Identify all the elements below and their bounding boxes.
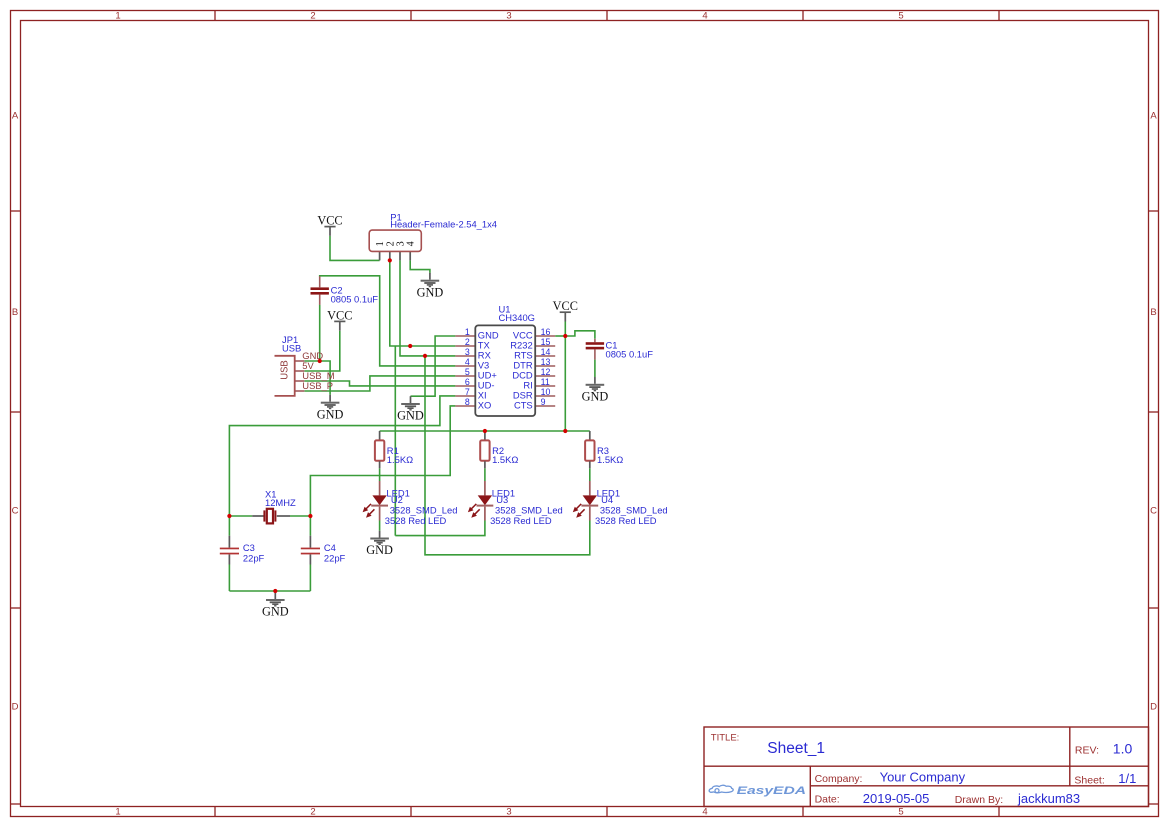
svg-text:1: 1	[465, 327, 470, 337]
svg-text:VCC: VCC	[327, 308, 352, 322]
svg-text:VCC: VCC	[553, 299, 578, 313]
svg-text:D: D	[12, 701, 19, 712]
svg-text:4: 4	[406, 241, 417, 246]
svg-text:3: 3	[465, 347, 470, 357]
svg-text:Date:: Date:	[815, 793, 840, 805]
svg-text:3: 3	[506, 807, 511, 818]
svg-text:22pF: 22pF	[324, 553, 346, 564]
svg-text:USB: USB	[280, 360, 291, 380]
svg-text:4: 4	[702, 11, 707, 22]
svg-text:1: 1	[115, 11, 120, 22]
svg-text:TITLE:: TITLE:	[711, 732, 740, 743]
svg-text:2: 2	[310, 11, 315, 22]
svg-text:3528 Red LED: 3528 Red LED	[385, 515, 447, 526]
svg-text:5: 5	[898, 11, 903, 22]
svg-text:A: A	[12, 110, 19, 121]
svg-text:1.0: 1.0	[1113, 740, 1133, 756]
svg-text:1/1: 1/1	[1118, 771, 1136, 786]
svg-text:B: B	[12, 307, 18, 318]
svg-text:8: 8	[465, 397, 470, 407]
svg-text:3528 Red LED: 3528 Red LED	[490, 515, 552, 526]
svg-text:3528_SMD_Led: 3528_SMD_Led	[390, 504, 458, 515]
svg-text:CH340G: CH340G	[499, 312, 535, 323]
svg-text:5: 5	[465, 367, 470, 377]
svg-text:A: A	[1150, 110, 1157, 121]
svg-text:4: 4	[465, 357, 470, 367]
svg-text:22pF: 22pF	[243, 553, 265, 564]
svg-text:2: 2	[465, 337, 470, 347]
svg-text:U2: U2	[391, 494, 403, 505]
svg-text:3: 3	[506, 11, 511, 22]
svg-text:Drawn By:: Drawn By:	[955, 794, 1003, 806]
svg-text:USB_P: USB_P	[302, 380, 333, 391]
svg-text:Company:: Company:	[815, 773, 863, 785]
svg-text:REV:: REV:	[1075, 744, 1099, 756]
svg-text:Your Company: Your Company	[880, 770, 966, 785]
svg-text:6: 6	[465, 377, 470, 387]
svg-text:0805 0.1uF: 0805 0.1uF	[331, 294, 379, 305]
svg-text:USB: USB	[282, 343, 301, 354]
svg-text:CTS: CTS	[514, 400, 533, 411]
svg-text:GND: GND	[317, 407, 344, 421]
svg-text:9: 9	[541, 397, 546, 407]
svg-text:15: 15	[541, 337, 551, 347]
svg-text:14: 14	[541, 347, 551, 357]
svg-text:13: 13	[541, 357, 551, 367]
svg-text:GND: GND	[397, 409, 424, 423]
svg-text:5: 5	[898, 807, 903, 818]
svg-text:10: 10	[541, 387, 551, 397]
svg-text:7: 7	[465, 387, 470, 397]
svg-text:3528 Red LED: 3528 Red LED	[595, 515, 657, 526]
svg-text:XO: XO	[478, 400, 492, 411]
svg-text:C: C	[1150, 505, 1157, 516]
svg-text:1.5KΩ: 1.5KΩ	[492, 454, 518, 465]
svg-text:GND: GND	[262, 605, 289, 619]
svg-text:16: 16	[541, 327, 551, 337]
svg-text:11: 11	[541, 377, 550, 387]
svg-text:GND: GND	[366, 543, 393, 557]
svg-text:U3: U3	[496, 494, 508, 505]
svg-text:B: B	[1150, 307, 1156, 318]
svg-text:C4: C4	[324, 542, 336, 553]
svg-text:12MHZ: 12MHZ	[265, 497, 296, 508]
svg-text:C: C	[12, 505, 19, 516]
svg-text:GND: GND	[417, 285, 444, 299]
svg-text:2: 2	[310, 807, 315, 818]
svg-text:Header-Female-2.54_1x4: Header-Female-2.54_1x4	[390, 218, 497, 229]
svg-text:Sheet_1: Sheet_1	[767, 740, 825, 757]
svg-text:1: 1	[115, 807, 120, 818]
svg-text:GND: GND	[582, 389, 609, 403]
svg-text:1.5KΩ: 1.5KΩ	[387, 454, 413, 465]
svg-text:0805 0.1uF: 0805 0.1uF	[606, 348, 654, 359]
svg-text:12: 12	[541, 367, 551, 377]
svg-text:C3: C3	[243, 542, 255, 553]
svg-text:VCC: VCC	[317, 214, 342, 228]
svg-text:Sheet:: Sheet:	[1074, 775, 1104, 787]
svg-text:jackkum83: jackkum83	[1017, 791, 1080, 806]
svg-text:EasyEDA: EasyEDA	[737, 785, 807, 797]
svg-text:U4: U4	[601, 494, 613, 505]
svg-text:4: 4	[702, 807, 707, 818]
svg-text:3528_SMD_Led: 3528_SMD_Led	[600, 504, 668, 515]
svg-text:1.5KΩ: 1.5KΩ	[597, 454, 623, 465]
svg-text:D: D	[1150, 701, 1157, 712]
svg-text:2019-05-05: 2019-05-05	[863, 791, 930, 806]
svg-text:3528_SMD_Led: 3528_SMD_Led	[495, 504, 563, 515]
